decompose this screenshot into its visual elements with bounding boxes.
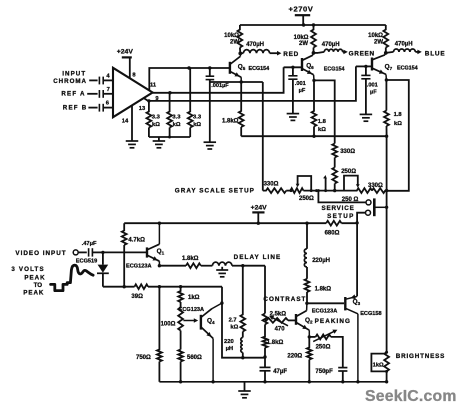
svg-text:VIDEO INPUT: VIDEO INPUT (15, 250, 66, 257)
node peaking junction (241, 355, 267, 359)
switch contact upper (366, 200, 371, 205)
capacitor .47uF (78, 241, 103, 257)
resistor 220 (Q2 emitter) (287, 337, 311, 382)
svg-text:1kΩ: 1kΩ (188, 295, 200, 301)
svg-text:REF A: REF A (61, 91, 85, 98)
svg-text:kΩ: kΩ (173, 122, 181, 128)
potentiometer wiper bracket (green) (344, 176, 360, 191)
node Q7 emitter (385, 78, 388, 81)
svg-text:100Ω: 100Ω (161, 322, 176, 328)
svg-text:1.8: 1.8 (318, 119, 327, 125)
watermark SeekIC.com (365, 388, 457, 405)
transistor Q7 (372, 53, 386, 80)
potentiometer 2.5k contrast (263, 312, 288, 333)
resistor 1.8k (Q6 emitter) (312, 80, 327, 136)
wire 3.3k common (149, 136, 190, 139)
node Q6 collector (312, 51, 316, 55)
wire 39ohm to peaking node (222, 287, 243, 358)
label RED (283, 51, 299, 58)
label DELAY LINE (234, 254, 282, 261)
resistor 2.7k (229, 266, 246, 332)
label Q6 ECG154 (306, 63, 344, 73)
label .001uF (Q5) (211, 83, 229, 89)
svg-text:39Ω: 39Ω (131, 294, 143, 300)
resistor 1.8k (contrast) (263, 324, 284, 356)
svg-text:GREEN: GREEN (349, 50, 375, 57)
inductor delay line (212, 262, 242, 266)
node mid column (333, 189, 336, 192)
transistor Q5 (230, 53, 241, 82)
wire lower contact (357, 213, 365, 223)
label .001uF (Q6) (295, 81, 306, 94)
svg-text:470µH: 470µH (246, 42, 264, 48)
diode ECG519 (76, 251, 109, 287)
wire +270V rail (240, 23, 386, 26)
transistor Q3 (345, 294, 358, 381)
resistor 750 (136, 287, 162, 382)
transistor Q2 (296, 303, 309, 337)
label pin 13 (139, 106, 146, 112)
svg-text:+24V: +24V (251, 205, 268, 212)
svg-text:PEAK: PEAK (24, 275, 45, 282)
svg-text:TO: TO (34, 282, 43, 289)
inductor 470uH (BLUE) (386, 42, 422, 55)
svg-text:PEAK: PEAK (23, 290, 44, 297)
svg-text:11: 11 (150, 82, 157, 88)
wire video to Q1 base (103, 251, 146, 253)
node Q7 collector (384, 51, 388, 55)
svg-text:10kΩ: 10kΩ (294, 35, 309, 41)
svg-text:470: 470 (275, 327, 286, 333)
svg-text:2W: 2W (299, 41, 308, 47)
svg-text:470µH: 470µH (395, 42, 413, 48)
svg-text:3.3: 3.3 (152, 115, 161, 121)
svg-text:470µH: 470µH (322, 42, 340, 48)
svg-text:µH: µH (226, 346, 234, 352)
resistor 1k (Q4 bias) (178, 287, 199, 302)
wire Q2 base (288, 319, 295, 321)
wire Q6 base (284, 66, 301, 69)
svg-text:.001: .001 (367, 83, 378, 89)
svg-text:.001: .001 (295, 81, 306, 87)
svg-text:330Ω: 330Ω (264, 181, 279, 187)
resistor 3.3k #2 (167, 91, 181, 137)
svg-text:BRIGHTNESS: BRIGHTNESS (396, 353, 445, 360)
resistor 560 (178, 350, 202, 382)
inductor 220uH (peaking) (224, 332, 243, 358)
wire wiper to switch (317, 189, 366, 202)
transistor Q4 (201, 303, 222, 382)
ground (Q7 cap) (360, 114, 373, 121)
svg-text:10kΩ: 10kΩ (368, 33, 383, 39)
svg-text:250Ω: 250Ω (299, 196, 314, 202)
svg-text:47µF: 47µF (273, 369, 287, 375)
svg-text:220: 220 (224, 339, 234, 345)
capacitor C .001uF (Q7) (361, 66, 370, 114)
svg-text:220Ω: 220Ω (287, 354, 302, 360)
label pin 6 (106, 100, 110, 106)
label .001uF (Q7) (367, 83, 378, 96)
capacitor input chroma (pin 4) (89, 77, 113, 85)
label INPUT CHROMA (53, 70, 87, 85)
svg-text:GRAY SCALE SETUP: GRAY SCALE SETUP (175, 188, 255, 195)
resistor 39 ohm (103, 284, 222, 300)
resistor 10k 2W (Q5 collector load) (224, 25, 242, 53)
wire Q7 emitter column (385, 136, 388, 352)
label BLUE (425, 50, 446, 57)
node Q2 emitter (308, 335, 311, 338)
svg-text:ECG154: ECG154 (397, 65, 418, 71)
svg-text:µF: µF (299, 88, 306, 94)
ground (delay line tap) (216, 267, 228, 277)
svg-text:3.3: 3.3 (172, 115, 181, 121)
svg-text:13: 13 (139, 106, 146, 112)
potentiometer 250 (peaking) (309, 330, 343, 368)
label pin 8 (132, 72, 136, 78)
switch contact lower (366, 210, 371, 215)
svg-text:DELAY LINE: DELAY LINE (234, 254, 282, 261)
wire Q5 emitter net (210, 80, 263, 83)
inductor 470uH (GREEN) (314, 42, 348, 54)
svg-text:330Ω: 330Ω (368, 183, 383, 189)
node Q1 emitter (158, 264, 161, 267)
capacitor 750pF (315, 368, 347, 382)
label 3 VOLTS PEAK TO PEAK (11, 266, 45, 297)
svg-text:CONTRAST: CONTRAST (263, 296, 306, 303)
svg-text:1.8kΩ: 1.8kΩ (267, 340, 284, 346)
svg-text:1.8kΩ: 1.8kΩ (222, 118, 239, 124)
svg-text:SETUP: SETUP (327, 213, 355, 220)
potentiometer 100 (Q4 base) (161, 302, 199, 350)
svg-text:ECG158: ECG158 (360, 311, 381, 317)
ground (main rail) (238, 382, 251, 398)
svg-text:kΩ: kΩ (318, 127, 326, 133)
capacitor REF B (pin 6) (88, 104, 113, 112)
svg-text:ECG519: ECG519 (76, 259, 97, 265)
node delay line out (241, 264, 244, 267)
svg-text:680Ω: 680Ω (325, 231, 340, 237)
svg-text:2.5kΩ: 2.5kΩ (270, 312, 287, 318)
node gray-scale taps (315, 189, 327, 192)
op-amp U1 chroma demodulator (113, 68, 153, 117)
svg-text:750Ω: 750Ω (136, 355, 151, 361)
ground (3.3k resistors) (153, 137, 166, 148)
svg-text:7: 7 (107, 87, 110, 93)
svg-text:750pF: 750pF (315, 369, 333, 375)
wire Q3 base (305, 302, 344, 305)
svg-text:ECG123A: ECG123A (126, 263, 152, 269)
svg-text:µF: µF (370, 90, 377, 96)
label pin 9 (155, 96, 159, 102)
svg-text:4.7kΩ: 4.7kΩ (128, 237, 145, 243)
svg-text:ECG154: ECG154 (324, 67, 345, 73)
resistor 4.7k (Q1 bias) (122, 223, 145, 287)
wire Q6 emitter branch (314, 80, 335, 143)
label Q1 ECG123A (126, 248, 165, 269)
label Q5 ECG154 (238, 64, 269, 72)
resistor 1.8k (delay line) (159, 256, 212, 268)
label Q4 ECG123A (179, 307, 215, 325)
label Q3 ECG158 (353, 298, 382, 317)
wire pin 13 line (144, 66, 356, 102)
switch armature (374, 198, 386, 216)
video waveform (51, 265, 94, 290)
potentiometer 250 (mid) (332, 168, 356, 191)
label REF B (63, 104, 88, 111)
ground (Q5 cap) (204, 82, 217, 149)
label pin 14 (122, 118, 129, 124)
svg-text:1.8kΩ: 1.8kΩ (315, 287, 332, 293)
node Q4 collector (220, 301, 223, 304)
wire pin11 to Q5 base (149, 66, 229, 90)
svg-text:560Ω: 560Ω (187, 355, 202, 361)
resistor 330 (gray scale left) (263, 181, 286, 193)
svg-text:REF B: REF B (63, 104, 88, 111)
capacitor C .001uF (Q5) (206, 68, 215, 82)
svg-text:kΩ: kΩ (394, 121, 402, 127)
resistor 10k 2W (Q6 collector load) (294, 25, 316, 53)
svg-text:ECG154: ECG154 (249, 66, 270, 72)
transistor Q6 (302, 53, 314, 81)
svg-text:3.3: 3.3 (193, 115, 202, 121)
power +24V (op-amp pin 8) (117, 49, 134, 80)
power +270V supply (289, 5, 314, 27)
svg-text:2W: 2W (230, 40, 239, 46)
svg-text:ECG123A: ECG123A (312, 309, 338, 315)
wire switch to Q3 collector (356, 223, 358, 296)
svg-text:SeekIC.com: SeekIC.com (365, 388, 457, 405)
wire delay out (243, 265, 265, 267)
label CONTRAST (263, 296, 306, 303)
svg-text:kΩ: kΩ (230, 324, 238, 330)
label pin 4 (106, 74, 110, 80)
resistor 1.8k (Q5 emitter) (222, 82, 244, 136)
wiper arrow (mid pot) (323, 175, 327, 191)
resistor 1.8k (Q3 base) (305, 279, 332, 304)
capacitor 47uF (260, 356, 288, 382)
wire Q5 emitter to gray-scale (262, 82, 264, 191)
svg-text:220µH: 220µH (312, 258, 330, 264)
label Q7 ECG154 (385, 64, 418, 72)
node Q5 collector (238, 52, 242, 56)
svg-text:2W: 2W (374, 40, 383, 46)
svg-text:1.8: 1.8 (394, 112, 403, 118)
power +24V supply (lower) (251, 205, 268, 224)
svg-text:14: 14 (122, 118, 129, 124)
svg-text:2.7: 2.7 (229, 317, 237, 323)
svg-text:1.8kΩ: 1.8kΩ (182, 256, 199, 262)
svg-text:BLUE: BLUE (425, 50, 446, 57)
resistor 330 (gray scale right) (368, 183, 387, 193)
svg-text:PEAKING: PEAKING (315, 318, 351, 325)
svg-text:250Ω: 250Ω (341, 169, 356, 175)
svg-text:1kΩ: 1kΩ (373, 362, 384, 368)
resistor 330 (Q6 branch) (332, 144, 355, 168)
label GREEN (349, 50, 375, 57)
svg-text:ECG123A: ECG123A (179, 307, 205, 313)
inductor 220uH (Q3 feed) (304, 223, 330, 279)
node Q6 emitter (312, 79, 315, 82)
svg-text:RED: RED (283, 51, 299, 58)
wire delay to contrast pot (264, 266, 266, 314)
svg-text:+270V: +270V (289, 5, 314, 14)
wire pin 9 line (153, 67, 284, 94)
svg-text:kΩ: kΩ (152, 122, 160, 128)
capacitor C .001uF (Q6) (288, 67, 297, 113)
wire Q7 emitter branch (386, 80, 408, 191)
svg-text:INPUT: INPUT (62, 70, 86, 77)
wire Q7 base (356, 65, 371, 68)
label SERVICE SETUP (321, 205, 354, 220)
svg-text:3 VOLTS: 3 VOLTS (11, 266, 44, 273)
svg-text:+24V: +24V (117, 49, 134, 56)
label REF A (61, 91, 85, 98)
resistor 1.8k (Q7 emitter) (384, 80, 402, 136)
resistor 250 (right pot) (335, 188, 372, 203)
svg-text:SERVICE: SERVICE (321, 205, 354, 212)
svg-text:kΩ: kΩ (193, 122, 201, 128)
svg-text:CHROMA: CHROMA (53, 78, 87, 85)
label pin 7 (107, 87, 110, 93)
resistor 10k 2W (Q7 collector load) (368, 25, 388, 53)
resistor 680 (service feed) (325, 221, 342, 237)
ground (Q6 cap) (287, 114, 300, 121)
label BRIGHTNESS (385, 351, 445, 373)
capacitor REF A (pin 7) (87, 90, 113, 98)
wire +24V rail lower (124, 221, 359, 225)
wire emitter common rail (241, 135, 388, 138)
terminal VIDEO INPUT (15, 250, 78, 257)
potentiometer 250 (red gray-scale) (286, 176, 335, 202)
resistor 3.3k #3 (188, 68, 202, 137)
svg-text:.001µF: .001µF (211, 83, 229, 89)
svg-text:.47µF: .47µF (82, 241, 97, 247)
svg-text:330Ω: 330Ω (340, 149, 355, 155)
ground (op-amp pin 14) (126, 105, 139, 148)
potentiometer 1k BRIGHTNESS (371, 352, 389, 382)
inductor 470uH (RED) (240, 42, 281, 56)
resistor 3.3k #1 (147, 101, 161, 137)
svg-text:10kΩ: 10kΩ (224, 33, 239, 39)
wire ground rail (159, 380, 388, 383)
label pin 11 (150, 82, 157, 88)
label GRAY SCALE SETUP (175, 188, 255, 195)
transistor Q1 (147, 223, 159, 266)
label Q2 PEAKING (305, 309, 351, 325)
svg-text:250Ω: 250Ω (316, 344, 331, 350)
